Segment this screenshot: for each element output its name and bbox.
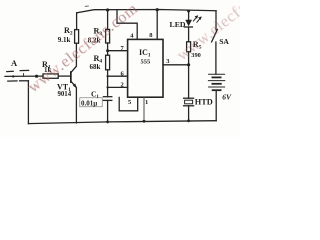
LED light arrow 2 xyxy=(197,17,201,22)
wire probe down xyxy=(27,81,29,124)
capacitor C1 plates xyxy=(103,96,111,98)
wire right rail lower xyxy=(215,90,217,120)
wire probe to R1 xyxy=(5,75,43,77)
node pin1 ground xyxy=(143,120,146,123)
LED lead top xyxy=(188,11,190,20)
svg-text:6V: 6V xyxy=(222,92,232,101)
stray mark xyxy=(85,5,89,7)
op-amp IC1 555 body xyxy=(128,39,163,97)
resistor R2 body xyxy=(75,30,79,44)
wire HTD to ground xyxy=(188,106,190,121)
resistor R1 body xyxy=(43,74,58,78)
transistor VT1 collector lead xyxy=(71,43,76,72)
svg-text:2: 2 xyxy=(121,82,124,89)
wire pin3 xyxy=(163,64,189,66)
node pin7 junction xyxy=(106,49,109,52)
svg-text:555: 555 xyxy=(141,59,152,66)
node pin6 tap xyxy=(107,75,109,77)
wire node to HTD xyxy=(188,65,190,98)
node R3 top xyxy=(106,8,109,11)
LED light arrow 1 xyxy=(193,16,197,21)
transistor VT1 emitter arrowhead xyxy=(73,83,77,88)
node HTD ground xyxy=(187,119,190,122)
wire pin8 xyxy=(156,10,158,40)
svg-text:A: A xyxy=(11,58,18,68)
wire pin1 to ground xyxy=(143,97,145,121)
svg-text:LED: LED xyxy=(170,20,186,29)
label box for C1 value xyxy=(80,98,102,107)
wire C1 to ground rail xyxy=(107,100,109,122)
svg-text:www.elecfans.com: www.elecfans.com xyxy=(25,0,141,96)
node C1 ground xyxy=(106,121,109,124)
svg-text:8: 8 xyxy=(149,32,153,39)
wire pin4 jog xyxy=(117,10,137,40)
node probe junction xyxy=(35,75,38,78)
wire R5 to pin3 node xyxy=(188,52,190,65)
svg-text:3: 3 xyxy=(166,58,170,65)
LED arrowhead 2 xyxy=(198,16,202,20)
pin 5 tab xyxy=(119,97,138,110)
wire R3 top lead xyxy=(107,10,109,30)
svg-text:9.1k: 9.1k xyxy=(58,36,71,44)
wire R1 to base xyxy=(58,75,70,77)
wire bottom rail xyxy=(28,121,216,124)
resistor R4 body xyxy=(106,55,110,70)
LED to R5 lead xyxy=(188,27,190,42)
LED cathode bar xyxy=(184,26,192,28)
wire R4 to C1 xyxy=(107,70,109,97)
LED diode triangle xyxy=(185,20,192,27)
node pin2 tap xyxy=(107,86,109,88)
wire top rail xyxy=(77,10,216,13)
wire pin7 xyxy=(108,50,128,52)
svg-text:5: 5 xyxy=(128,99,132,106)
svg-text:SA: SA xyxy=(219,37,229,46)
LED arrowhead 1 xyxy=(195,15,199,19)
wire R3 to R4 xyxy=(107,43,109,55)
wire pin6 xyxy=(108,75,128,77)
wire right rail upper xyxy=(215,11,217,30)
svg-text:68k: 68k xyxy=(90,63,101,71)
wire R2 top lead xyxy=(76,13,78,30)
svg-text:R2: R2 xyxy=(64,26,73,37)
svg-text:IC1: IC1 xyxy=(139,48,151,59)
svg-text:0.01µ: 0.01µ xyxy=(81,100,97,108)
svg-text:9014: 9014 xyxy=(58,91,72,98)
node pin3 junction xyxy=(187,63,190,66)
wire right rail mid xyxy=(215,42,217,74)
svg-text:HTD: HTD xyxy=(195,98,213,107)
svg-text:1: 1 xyxy=(145,99,148,106)
resistor R3 body xyxy=(106,29,110,43)
svg-text:4: 4 xyxy=(130,33,134,40)
node LED top xyxy=(187,10,190,13)
battery 6V plates xyxy=(209,73,225,75)
watermark xyxy=(25,0,290,96)
transistor VT1 base bar xyxy=(70,71,72,83)
node pin8 top xyxy=(156,8,159,11)
resistor R5 body xyxy=(187,42,191,52)
switch SA blade xyxy=(212,29,218,42)
probe A electrode dashes xyxy=(7,70,13,72)
transistor VT1 emitter lead xyxy=(71,82,76,123)
svg-text:C1: C1 xyxy=(91,89,99,100)
buzzer HTD plates xyxy=(184,97,194,99)
wire pin2 xyxy=(108,86,128,88)
